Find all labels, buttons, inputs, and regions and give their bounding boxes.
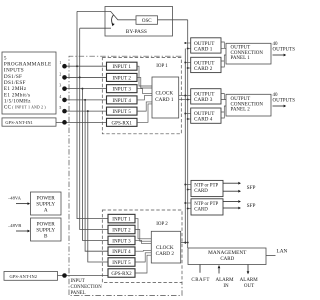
svg-text:IN: IN [223,284,229,289]
svg-text:CRAFT: CRAFT [191,278,210,283]
svg-text:5: 5 [4,55,7,61]
svg-text:40: 40 [273,42,279,47]
svg-text:GPS-ANT-IN1: GPS-ANT-IN1 [5,120,33,125]
svg-text:( INPUT 1 AND 2 ): ( INPUT 1 AND 2 ) [12,106,46,110]
svg-text:GPS-ANT-IN2: GPS-ANT-IN2 [10,274,38,279]
svg-text:SFP: SFP [247,203,256,209]
svg-text:ALARM: ALARM [215,278,234,283]
svg-text:IOP 1: IOP 1 [156,64,168,69]
svg-text:OUTPUT: OUTPUT [231,97,251,102]
svg-text:40: 40 [273,93,279,98]
svg-text:CARD: CARD [220,257,234,262]
svg-text:CONNECTION: CONNECTION [231,102,264,107]
svg-text:CARD 2: CARD 2 [156,251,175,257]
svg-text:5: 5 [59,106,61,110]
svg-text:POWER: POWER [37,195,56,201]
svg-text:DS1/SF: DS1/SF [4,74,22,80]
svg-text:1: 1 [59,61,61,65]
svg-text:GPS-RX1: GPS-RX1 [112,121,133,126]
svg-text:DS1/ESF: DS1/ESF [4,80,26,86]
svg-text:ALARM: ALARM [240,278,259,283]
svg-text:OUTPUTS: OUTPUTS [273,98,296,103]
svg-text:GPS-RX2: GPS-RX2 [111,272,132,277]
svg-text:INPUT 1: INPUT 1 [113,65,132,70]
svg-text:CARD: CARD [194,207,208,212]
svg-text:OUT: OUT [244,284,254,289]
svg-text:INPUT 5: INPUT 5 [113,110,132,115]
svg-text:OUTPUT: OUTPUT [231,46,251,51]
svg-text:CONNECTION: CONNECTION [231,51,264,56]
svg-text:INPUT 4: INPUT 4 [112,250,131,255]
svg-text:1/5/10MHz: 1/5/10MHz [4,98,31,104]
svg-text:PANEL: PANEL [71,291,86,296]
svg-text:E1 2Mbit/s: E1 2Mbit/s [4,92,30,98]
svg-text:BY-PASS: BY-PASS [126,29,147,35]
svg-text:IOP 2: IOP 2 [156,222,168,227]
svg-text:OUTPUTS: OUTPUTS [273,47,296,52]
svg-text:INPUT 4: INPUT 4 [113,99,132,104]
svg-text:SFP: SFP [247,185,256,191]
svg-text:INPUT 3: INPUT 3 [112,239,131,244]
svg-text:PANEL 2: PANEL 2 [231,108,251,113]
svg-text:4: 4 [59,95,61,99]
svg-text:INPUT 5: INPUT 5 [112,261,131,266]
svg-text:–48VB: –48VB [7,223,21,228]
svg-text:CARD 1: CARD 1 [194,46,213,52]
svg-text:PROGRAMMABLE: PROGRAMMABLE [4,62,52,68]
svg-text:–48VA: –48VA [7,196,22,201]
svg-text:A: A [44,208,48,214]
svg-text:SUPPLY: SUPPLY [36,201,55,207]
svg-text:MANAGEMENT: MANAGEMENT [208,250,247,256]
svg-text:CARD 2: CARD 2 [194,66,213,72]
svg-text:LAN: LAN [277,248,288,254]
svg-text:3: 3 [59,84,61,88]
svg-text:INPUTS: INPUTS [4,68,24,74]
svg-text:CONNECTION: CONNECTION [71,285,103,290]
svg-text:CARD: CARD [194,189,208,194]
svg-text:CARD 4: CARD 4 [194,117,213,123]
svg-text:SUPPLY: SUPPLY [36,227,55,233]
svg-text:INPUT 3: INPUT 3 [113,88,132,93]
svg-text:OSC: OSC [142,19,152,24]
svg-text:NTP or PTP: NTP or PTP [194,184,218,189]
svg-text:PANEL 1: PANEL 1 [231,56,251,61]
svg-text:CC: CC [4,105,12,111]
svg-text:CARD 3: CARD 3 [194,97,213,103]
svg-text:INPUT: INPUT [71,279,85,284]
svg-text:INPUT 1: INPUT 1 [112,218,131,223]
svg-text:INPUT 2: INPUT 2 [112,228,131,233]
svg-text:B: B [44,234,48,240]
svg-text:2: 2 [59,72,61,76]
svg-text:NTP or PTP: NTP or PTP [194,202,218,207]
svg-text:POWER: POWER [37,221,56,227]
svg-text:INPUT 2: INPUT 2 [113,76,132,81]
svg-text:CLOCK: CLOCK [156,91,174,97]
svg-text:CARD 1: CARD 1 [155,97,174,103]
svg-text:E1 2MHz: E1 2MHz [4,86,27,92]
